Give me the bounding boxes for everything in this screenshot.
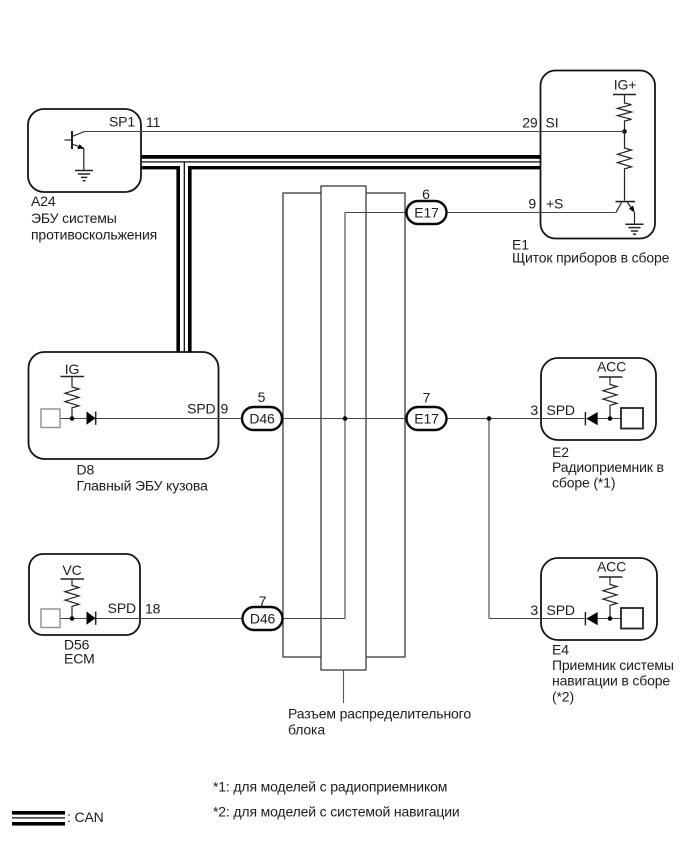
- connector E17 pin 6: [407, 201, 447, 224]
- svg-text:29: 29: [522, 115, 538, 131]
- svg-text:навигации в сборе: навигации в сборе: [552, 673, 670, 689]
- svg-text:Разъем распределительного: Разъем распределительного: [288, 706, 471, 722]
- wire branch down to E4 pin3: [488, 419, 490, 619]
- svg-text:SI: SI: [546, 115, 559, 131]
- svg-text:3: 3: [530, 602, 538, 618]
- junction dot D8: [70, 416, 75, 421]
- svg-text:D8: D8: [77, 462, 95, 478]
- svg-text:Приемник системы: Приемник системы: [552, 657, 674, 673]
- wire D46 pin5 to E17 pin7: [282, 418, 407, 420]
- ground in E1: [626, 224, 644, 234]
- connector square D56: [41, 609, 60, 628]
- power ACC in E2: [597, 359, 626, 378]
- junction dot E2: [608, 416, 613, 421]
- CAN bus branch (down to D8): [176, 163, 191, 353]
- svg-text:IG+: IG+: [614, 77, 637, 93]
- svg-text:ECM: ECM: [64, 651, 95, 667]
- resistor in E4: [603, 577, 617, 618]
- svg-text:7: 7: [259, 593, 267, 609]
- power ACC in E4: [597, 559, 626, 578]
- wire E17 pin7 to E2 pin3 SPD: [447, 418, 585, 420]
- ground in A24: [75, 171, 93, 181]
- connector D46 pin 7: [243, 607, 283, 630]
- svg-text:противоскольжения: противоскольжения: [31, 227, 157, 243]
- svg-text:: CAN: : CAN: [67, 809, 104, 825]
- CAN bus trunk (A24 to E1): [141, 155, 541, 169]
- svg-text:6: 6: [422, 186, 430, 202]
- junction block inner rectangle: [321, 186, 366, 670]
- svg-text:ACC: ACC: [597, 559, 626, 575]
- ECU box E4: [541, 558, 657, 640]
- connector square D8: [41, 409, 60, 428]
- connector square E4: [621, 608, 643, 629]
- ECU box D56: [29, 554, 140, 635]
- transistor in E1: [616, 202, 636, 224]
- svg-text:9: 9: [528, 196, 536, 212]
- svg-text:E2: E2: [552, 444, 569, 460]
- svg-text:5: 5: [258, 389, 266, 405]
- junction dot riser/SPD wire: [343, 416, 348, 421]
- power IG+ in E1: [613, 77, 636, 95]
- transistor SP1 in A24: [65, 131, 85, 170]
- svg-text:D46: D46: [250, 611, 276, 627]
- resistor E1 lower: [618, 132, 632, 201]
- svg-text:Главный ЭБУ кузова: Главный ЭБУ кузова: [77, 478, 208, 494]
- svg-text:IG: IG: [65, 361, 79, 377]
- resistor in D8: [65, 377, 79, 418]
- svg-text:Радиоприемник в: Радиоприемник в: [552, 459, 664, 475]
- node SI junction dot: [622, 129, 627, 134]
- svg-text:SPD: SPD: [547, 402, 575, 418]
- svg-text:7: 7: [423, 390, 431, 406]
- svg-text:3: 3: [530, 402, 538, 418]
- svg-text:9: 9: [221, 401, 229, 417]
- wire D46 pin7 to riser: [283, 618, 346, 620]
- junction dot E2/E4 branch: [487, 416, 492, 421]
- diode in D8: [87, 412, 96, 425]
- svg-text:A24: A24: [31, 193, 56, 209]
- connector D46 pin 5: [242, 407, 282, 430]
- power IG in D8: [61, 361, 85, 377]
- wire SI inside E1: [541, 131, 625, 133]
- wire SP1 pin11 to E1 pin29 SI: [85, 131, 541, 133]
- svg-text:блока: блока: [288, 722, 325, 738]
- svg-text:SPD: SPD: [547, 602, 575, 618]
- connector E17 pin 7: [407, 407, 447, 430]
- diode in E2: [585, 412, 597, 425]
- wire vertical riser x=345 (E17-6 down to D46-7): [344, 213, 346, 619]
- connector square E2: [621, 408, 643, 429]
- wire E17 pin6 to E1 pin9 +S: [345, 212, 616, 214]
- wire D56 pin18 to D46 pin7: [60, 618, 243, 620]
- svg-text:ACC: ACC: [597, 359, 626, 375]
- svg-text:VC: VC: [62, 562, 81, 578]
- svg-text:E4: E4: [552, 642, 569, 658]
- svg-text:+S: +S: [546, 196, 563, 212]
- svg-text:E17: E17: [414, 411, 439, 427]
- ECU box E2: [541, 358, 656, 440]
- junction dot D56: [70, 616, 75, 621]
- power VC in D56: [61, 562, 85, 579]
- junction block outer rectangle: [283, 193, 405, 657]
- svg-text:E17: E17: [414, 205, 439, 221]
- svg-text:SP1: SP1: [109, 114, 135, 130]
- svg-text:D46: D46: [249, 411, 275, 427]
- ECU box E1: [541, 71, 656, 239]
- resistor E1 upper: [618, 95, 632, 132]
- junction block leader line: [343, 670, 345, 703]
- legend CAN line sample: [12, 811, 65, 826]
- svg-text:*1: для моделей с радиоприемни: *1: для моделей с радиоприемником: [213, 779, 447, 795]
- resistor in D56: [65, 579, 79, 618]
- diode in E4: [585, 612, 597, 625]
- svg-text:SPD: SPD: [108, 600, 136, 616]
- svg-text:(*2): (*2): [552, 689, 574, 705]
- ECU box A24: [28, 109, 141, 192]
- svg-text:Щиток приборов в сборе: Щиток приборов в сборе: [512, 250, 670, 266]
- svg-text:*2: для моделей с системой нав: *2: для моделей с системой навигации: [213, 804, 460, 820]
- svg-text:ЭБУ системы: ЭБУ системы: [31, 210, 117, 226]
- svg-text:11: 11: [146, 114, 161, 130]
- diode in D56: [87, 612, 96, 625]
- svg-text:18: 18: [145, 601, 161, 617]
- wire D8 pin9 to D46 pin5: [60, 418, 242, 420]
- svg-text:SPD: SPD: [187, 401, 215, 417]
- svg-text:сборе (*1): сборе (*1): [552, 475, 615, 491]
- junction dot E4: [608, 616, 613, 621]
- ECU box D8: [29, 352, 219, 459]
- resistor in E2: [603, 377, 617, 418]
